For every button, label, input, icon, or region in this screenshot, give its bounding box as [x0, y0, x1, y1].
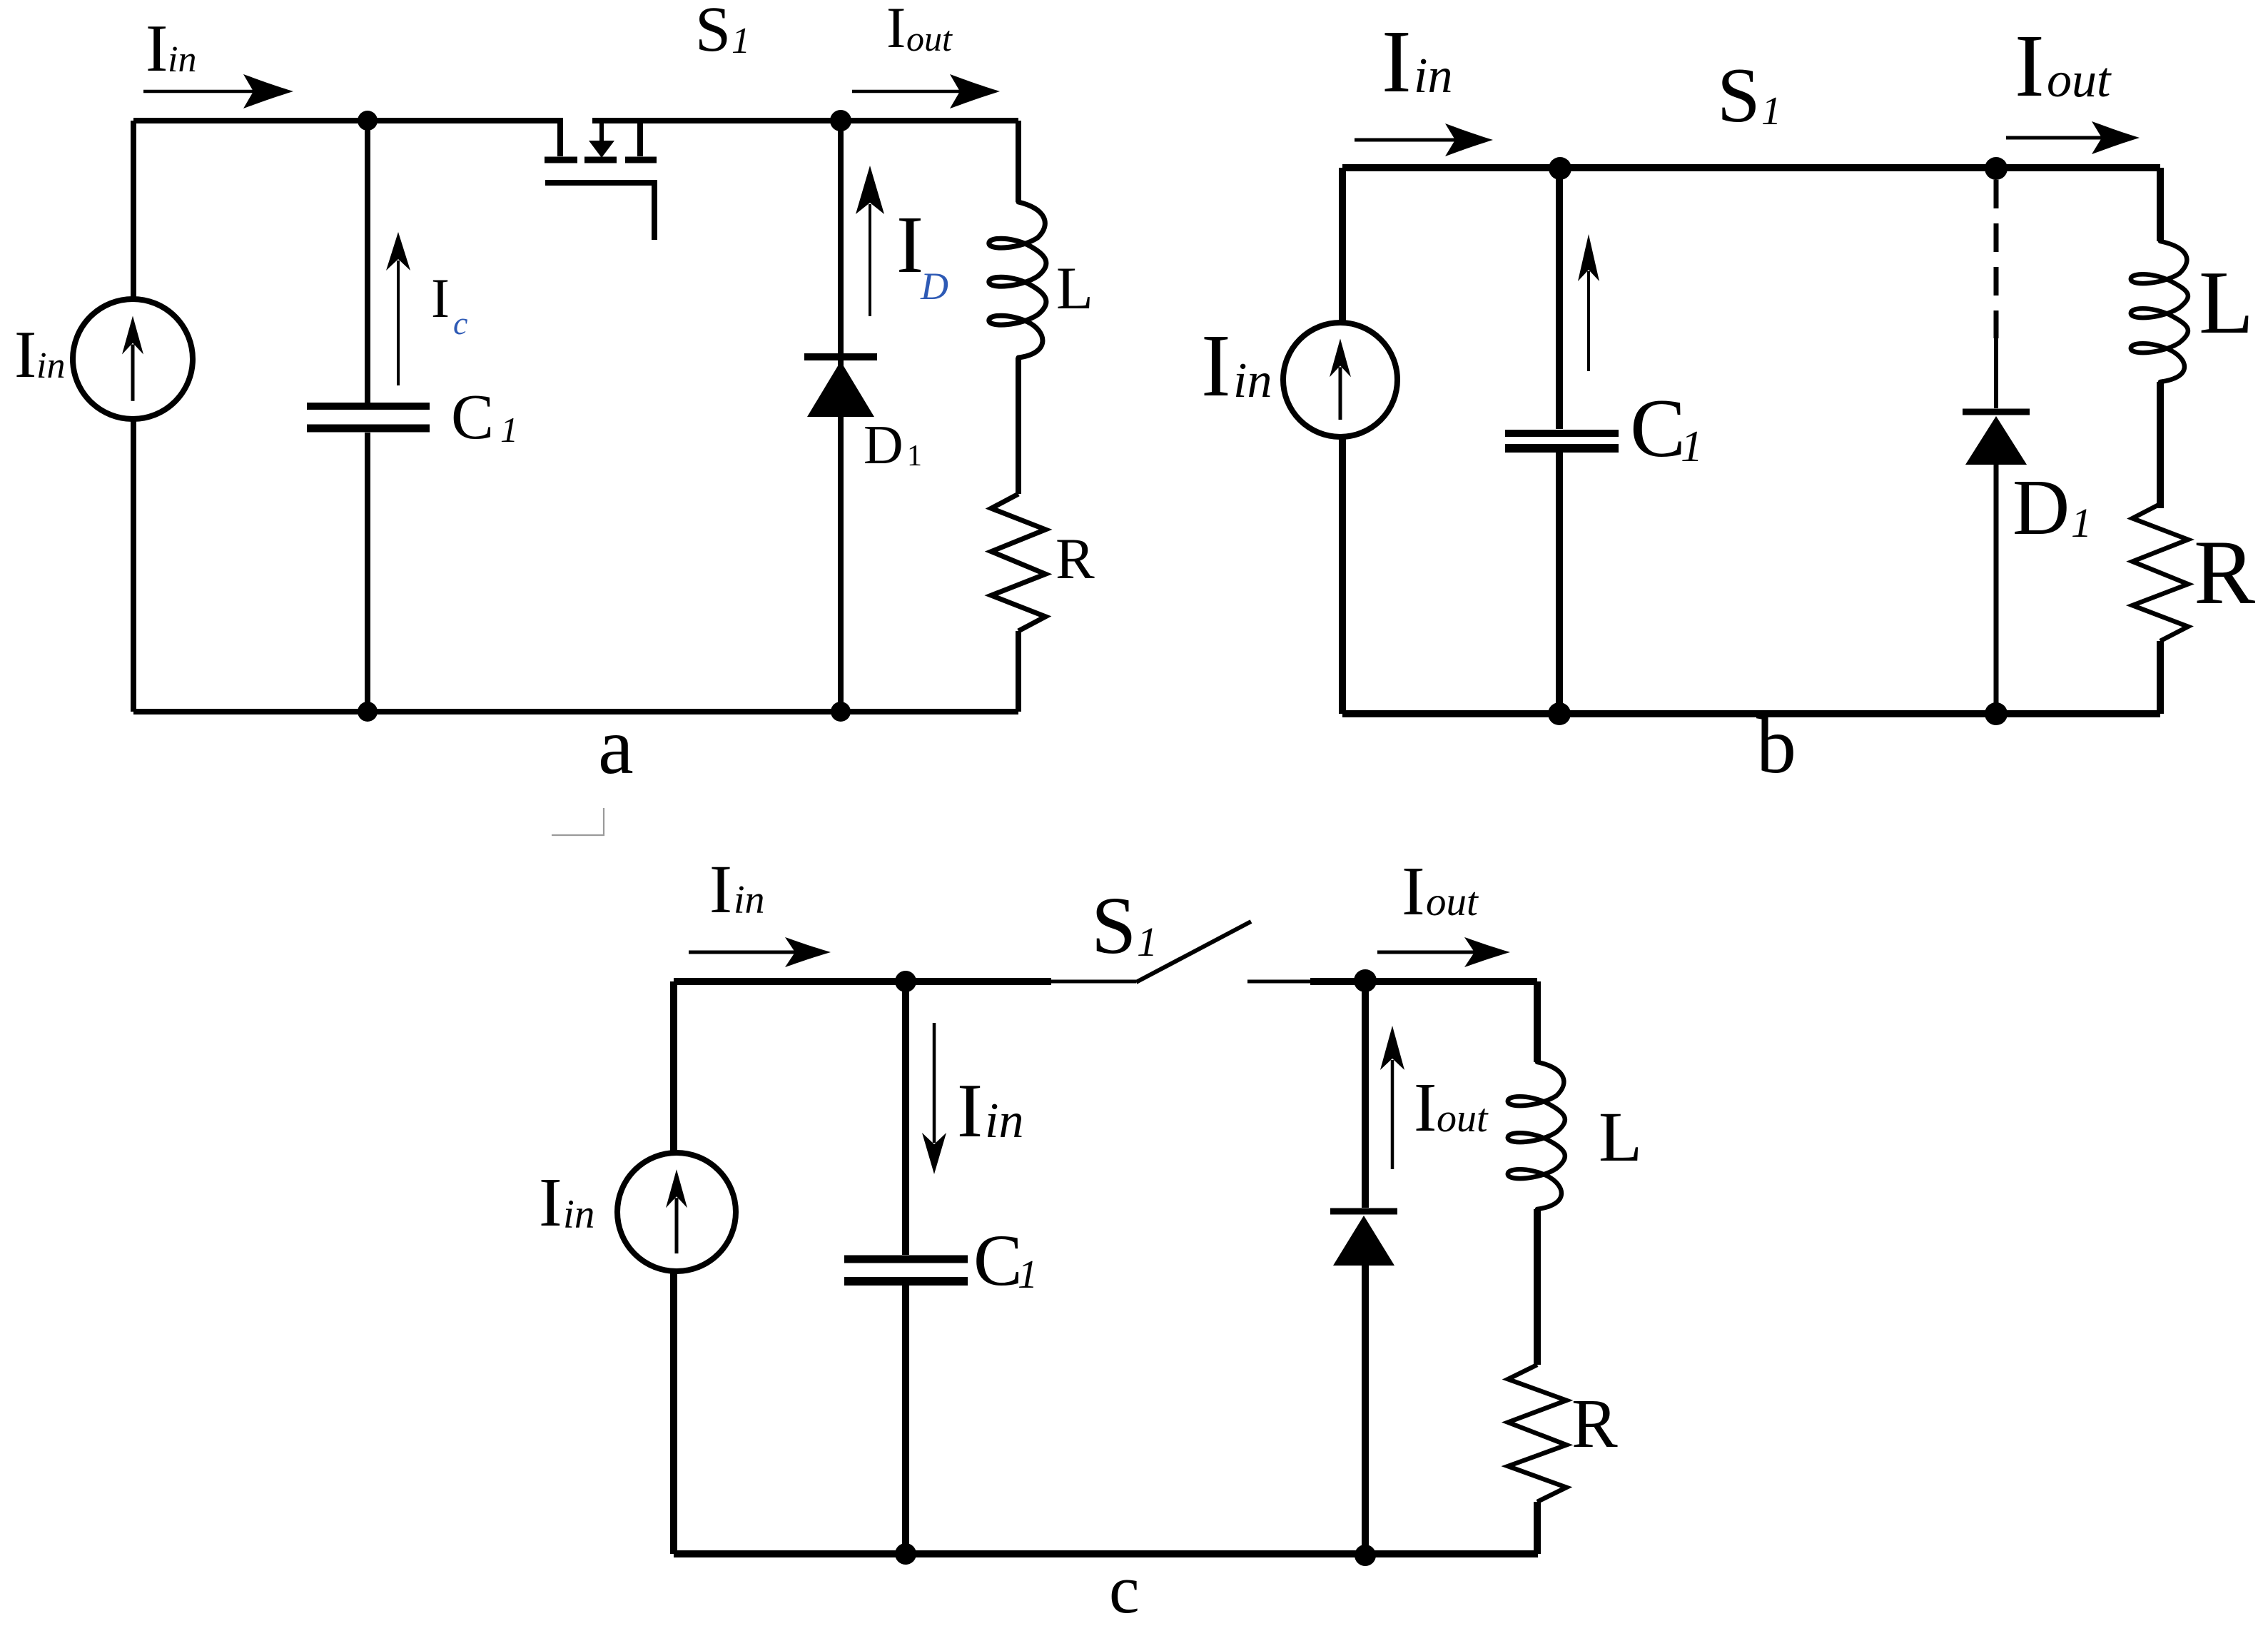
svg-text:1: 1	[500, 410, 518, 450]
svg-text:I: I	[957, 1069, 983, 1153]
svg-text:I: I	[709, 851, 732, 927]
svg-text:1: 1	[1018, 1253, 1038, 1297]
svg-text:a: a	[598, 702, 634, 791]
svg-text:S: S	[695, 0, 731, 65]
svg-text:in: in	[1414, 49, 1452, 103]
svg-text:C: C	[1630, 383, 1686, 475]
svg-text:I: I	[14, 318, 36, 392]
svg-text:R: R	[2194, 521, 2255, 623]
svg-text:in: in	[36, 345, 65, 386]
svg-text:1: 1	[2071, 500, 2092, 546]
svg-text:I: I	[2015, 17, 2045, 116]
svg-text:R: R	[1571, 1385, 1618, 1462]
svg-text:I: I	[146, 11, 168, 86]
svg-text:I: I	[1382, 13, 1412, 111]
svg-text:in: in	[168, 39, 196, 80]
svg-text:1: 1	[1137, 919, 1158, 965]
svg-text:D: D	[864, 414, 903, 475]
svg-text:S: S	[1717, 52, 1761, 138]
svg-text:I: I	[431, 267, 450, 329]
svg-text:L: L	[1599, 1097, 1642, 1176]
svg-text:in: in	[563, 1192, 594, 1237]
svg-text:S: S	[1091, 880, 1136, 971]
svg-text:D: D	[920, 265, 948, 308]
svg-text:1: 1	[907, 440, 922, 473]
svg-text:in: in	[1233, 353, 1272, 408]
svg-text:R: R	[1055, 526, 1095, 591]
svg-text:I: I	[896, 199, 923, 290]
svg-text:C: C	[451, 382, 494, 453]
svg-text:c: c	[1109, 1551, 1140, 1626]
svg-text:D: D	[2013, 464, 2070, 552]
svg-text:1: 1	[1681, 423, 1703, 471]
svg-text:I: I	[1414, 1069, 1437, 1146]
svg-text:in: in	[734, 878, 765, 922]
svg-text:out: out	[1426, 879, 1479, 924]
svg-text:I: I	[1402, 853, 1425, 930]
svg-text:c: c	[453, 305, 467, 341]
svg-text:1: 1	[731, 21, 750, 61]
svg-text:I: I	[539, 1164, 562, 1241]
svg-text:C: C	[973, 1220, 1023, 1301]
svg-text:out: out	[2047, 53, 2112, 108]
svg-text:L: L	[1056, 255, 1093, 322]
svg-text:in: in	[985, 1094, 1023, 1148]
svg-text:I: I	[886, 0, 906, 60]
svg-text:out: out	[906, 19, 953, 59]
svg-text:b: b	[1756, 702, 1796, 790]
svg-text:1: 1	[1761, 89, 1781, 133]
svg-text:I: I	[1201, 317, 1231, 415]
svg-text:L: L	[2199, 253, 2254, 353]
svg-text:out: out	[1437, 1096, 1489, 1141]
